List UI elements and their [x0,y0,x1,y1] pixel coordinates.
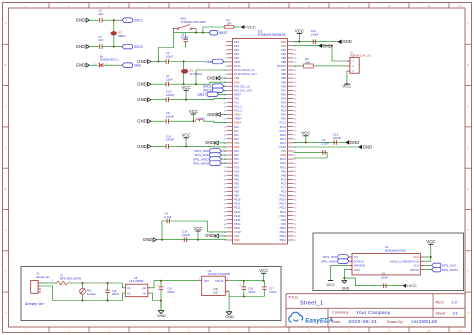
svg-text:12: 12 [224,86,226,88]
svg-text:PC4: PC4 [234,165,240,169]
svg-text:69: 69 [294,167,296,169]
svg-text:PD15: PD15 [280,194,287,198]
svg-text:14: 14 [224,94,226,96]
svg-text:PC15-OSC32_OUT: PC15-OSC32_OUT [234,72,257,76]
svg-text:PE9: PE9 [234,194,239,198]
svg-text:51: 51 [294,240,296,242]
svg-text:16: 16 [224,102,226,104]
svg-text:PE7: PE7 [234,185,239,189]
svg-text:PB8: PB8 [281,60,286,64]
svg-text:2.2uF: 2.2uF [322,141,330,145]
svg-text:OSC1: OSC1 [134,19,143,23]
svg-text:PB11: PB11 [234,226,241,230]
svg-text:VSS: VSS [281,44,286,48]
svg-text:10uH: 10uH [198,117,204,121]
svg-text:C: C [467,105,469,108]
svg-text:PD14: PD14 [280,198,287,202]
svg-text:PE5: PE5 [234,52,239,56]
svg-text:GND: GND [213,291,219,294]
svg-text:MF24 DF2.000TM: MF24 DF2.000TM [60,277,81,281]
svg-text:150nF: 150nF [112,292,120,296]
svg-text:GND: GND [143,237,153,242]
svg-text:10R: 10R [305,60,310,64]
svg-text:VCC: VCC [182,133,191,138]
svg-text:80: 80 [294,123,296,125]
svg-text:PA10: PA10 [280,165,287,169]
svg-text:PE10: PE10 [234,198,241,202]
svg-text:GND: GND [76,63,86,68]
svg-text:3: 3 [225,50,226,52]
svg-text:PB7: PB7 [281,68,286,72]
svg-text:38: 38 [224,191,226,193]
svg-text:54: 54 [294,228,296,230]
svg-text:PC14-OSC32_IN: PC14-OSC32_IN [234,68,254,72]
svg-text:PC13: PC13 [234,64,241,68]
svg-text:220uF: 220uF [248,290,256,294]
svg-text:PB10: PB10 [234,222,241,226]
svg-text:EasyEDA: EasyEDA [305,318,333,325]
svg-text:VSS: VSS [281,149,286,153]
svg-text:55: 55 [294,224,296,226]
svg-text:77: 77 [294,135,296,137]
svg-text:Sheet_1: Sheet_1 [300,301,324,307]
svg-text:91: 91 [294,78,296,80]
svg-text:PE6: PE6 [234,56,239,60]
svg-text:C15: C15 [112,289,117,293]
svg-text:VDD: VDD [234,80,240,84]
svg-text:2.2uF: 2.2uF [164,215,172,219]
svg-text:VCC: VCC [182,85,191,90]
svg-text:PB12: PB12 [280,238,287,242]
svg-text:OSC2: OSC2 [134,45,143,49]
svg-text:CR2032-BS-2-1: CR2032-BS-2-1 [100,58,120,62]
svg-text:220uF: 220uF [167,290,175,294]
svg-text:PC9: PC9 [281,177,287,181]
svg-text:PB2: PB2 [234,181,239,185]
svg-text:PA12: PA12 [280,157,287,161]
svg-text:100nF: 100nF [166,138,174,142]
svg-text:GND: GND [157,313,166,318]
svg-text:52: 52 [294,236,296,238]
svg-text:95: 95 [294,62,296,64]
svg-text:24: 24 [224,135,226,137]
svg-text:7: 7 [225,66,226,68]
svg-text:GND: GND [137,82,147,87]
svg-text:VCC: VCC [326,282,335,287]
svg-text:PB5: PB5 [281,76,286,80]
svg-text:SPI1_MISO: SPI1_MISO [321,259,338,263]
svg-text:49: 49 [224,236,226,238]
svg-text:81: 81 [294,119,296,121]
svg-text:Sheet:: Sheet: [435,312,446,316]
svg-text:53: 53 [294,232,296,234]
svg-text:VCC: VCC [295,28,304,33]
svg-text:SPI1_MOSI: SPI1_MOSI [442,268,458,272]
svg-text:PA5: PA5 [234,153,239,157]
svg-text:VCC: VCC [342,84,351,89]
svg-text:PC2_C: PC2_C [234,105,242,109]
svg-text:PC12: PC12 [280,121,287,125]
svg-text:VDD: VDD [281,153,287,157]
svg-text:23: 23 [224,131,226,133]
svg-text:GND: GND [137,119,147,124]
svg-text:66: 66 [294,179,296,181]
svg-text:H: H [467,311,469,314]
svg-text:8: 8 [225,70,226,72]
svg-text:59: 59 [294,208,296,210]
svg-text:20: 20 [224,119,226,121]
svg-text:76: 76 [294,139,296,141]
svg-text:GND: GND [342,39,352,44]
svg-text:19: 19 [224,115,226,117]
svg-text:PB6: PB6 [281,72,286,76]
svg-text:PC7: PC7 [281,185,287,189]
svg-text:1.0: 1.0 [451,300,457,305]
svg-text:DI(IO0): DI(IO0) [410,268,419,272]
svg-text:GND: GND [207,75,216,80]
svg-text:GND: GND [137,97,147,102]
svg-text:Штекер зел: Штекер зел [25,302,44,306]
svg-text:35: 35 [224,179,226,181]
svg-text:PA7: PA7 [234,161,239,165]
svg-text:PA14: PA14 [280,137,287,141]
svg-text:100nF: 100nF [333,136,341,140]
svg-text:VCC: VCC [259,268,268,273]
svg-text:VDDA: VDDA [234,121,241,125]
svg-text:PD4: PD4 [281,101,287,105]
svg-text:60: 60 [294,204,296,206]
svg-text:VDD: VDD [234,145,240,149]
svg-text:REV:: REV: [435,300,444,305]
svg-text:VOUT: VOUT [215,279,224,283]
svg-text:AC: AC [127,286,131,290]
svg-text:86: 86 [294,98,296,100]
svg-text:PA13: PA13 [280,141,287,145]
svg-text:100uF: 100uF [269,290,277,294]
svg-text:VCC: VCC [193,226,202,231]
svg-text:PD9: PD9 [281,218,287,222]
svg-text:PD3: PD3 [281,105,287,109]
svg-text:+VCC: +VCC [245,24,256,29]
svg-text:18: 18 [224,110,226,112]
svg-text:PA1: PA1 [234,129,239,133]
svg-text:PA2: PA2 [234,133,239,137]
svg-text:27: 27 [224,147,226,149]
svg-text:PE4: PE4 [234,48,239,52]
svg-text:+VCC: +VCC [407,284,417,288]
svg-text:79: 79 [294,127,296,129]
svg-text:PE14: PE14 [234,214,241,218]
svg-text:TITLE:: TITLE: [288,295,299,299]
svg-text:PC6: PC6 [281,190,287,194]
svg-text:89: 89 [294,86,296,88]
svg-text:PA9: PA9 [281,169,286,173]
svg-text:VCC: VCC [426,239,435,244]
svg-text:PD2: PD2 [281,109,287,113]
svg-text:87: 87 [294,94,296,96]
svg-text:85: 85 [294,102,296,104]
svg-text:2020-08-31: 2020-08-31 [348,319,377,325]
svg-text:TTS002E-2500-2500: TTS002E-2500-2500 [180,20,206,24]
svg-text:+: + [156,284,158,288]
svg-text:PE13: PE13 [234,210,241,214]
svg-text:25: 25 [224,139,226,141]
svg-text:+: + [239,284,241,288]
svg-text:PE8: PE8 [234,190,239,194]
svg-text:12pF: 12pF [166,77,173,81]
svg-text:Your Company: Your Company [356,310,391,315]
svg-text:PB15: PB15 [280,226,287,230]
svg-text:G: G [5,270,7,273]
svg-text:C17: C17 [269,286,274,290]
svg-text:100nF: 100nF [381,275,389,279]
svg-text:GND: GND [205,233,214,238]
svg-text:cer289126: cer289126 [411,319,437,325]
svg-text:HLK-20M05: HLK-20M05 [130,279,144,283]
svg-text:34: 34 [224,175,226,177]
svg-text:100nF: 100nF [181,36,189,40]
svg-text:2: 2 [225,46,226,48]
svg-text:62: 62 [294,195,296,197]
svg-text:GND: GND [76,18,86,23]
svg-text:65: 65 [294,183,296,185]
svg-text:PC3_C: PC3_C [234,109,242,113]
svg-text:75: 75 [294,143,296,145]
svg-text:PB4: PB4 [281,80,286,84]
svg-text:92: 92 [294,74,296,76]
svg-text:PA11: PA11 [280,161,287,165]
svg-text:GND: GND [205,140,214,145]
svg-text:41: 41 [224,204,226,206]
svg-text:PE0: PE0 [281,52,286,56]
svg-text:GND: GND [225,314,234,319]
svg-text:10pF: 10pF [166,55,173,59]
svg-text:VSS: VSS [234,76,239,80]
svg-text:C16: C16 [167,286,172,290]
svg-text:100nF: 100nF [166,114,174,118]
svg-text:BOOT0: BOOT0 [277,64,286,68]
svg-text:PA8: PA8 [281,173,286,177]
svg-text:GND: GND [323,43,332,48]
svg-text:PA4: PA4 [234,149,239,153]
svg-text:73: 73 [294,151,296,153]
svg-text:6pF: 6pF [98,12,103,16]
svg-text:VCAP: VCAP [279,145,286,149]
svg-text:6pF: 6pF [98,38,103,42]
svg-text:32: 32 [224,167,226,169]
svg-text:57: 57 [294,216,296,218]
svg-text:HDR-M-2.54_1x3: HDR-M-2.54_1x3 [350,54,371,58]
svg-text:NRST: NRST [234,92,241,96]
svg-text:5: 5 [225,58,226,60]
svg-text:VCC: VCC [189,109,198,114]
svg-text:68: 68 [294,171,296,173]
svg-text:VREF+: VREF+ [234,117,243,121]
svg-text:PE1: PE1 [281,48,286,52]
svg-text:PD1: PD1 [281,113,287,117]
svg-text:W25Q64JVSSIQ: W25Q64JVSSIQ [385,249,407,253]
svg-text:36: 36 [224,183,226,185]
svg-text:70: 70 [294,163,296,165]
svg-text:PD11: PD11 [280,210,287,214]
svg-text:C18: C18 [248,286,253,290]
svg-text:GND: GND [363,145,373,150]
svg-text:STM32H750VBT6: STM32H750VBT6 [258,33,286,37]
svg-text:39: 39 [224,195,226,197]
svg-text:PC10: PC10 [280,129,287,133]
svg-text:TC1262-3.3VDBTR: TC1262-3.3VDBTR [208,272,231,276]
svg-text:GND: GND [207,112,216,117]
svg-text:Date:: Date: [332,320,341,324]
svg-text:63: 63 [294,191,296,193]
svg-text:PD0: PD0 [281,117,287,121]
svg-text:PB9: PB9 [281,56,286,60]
svg-text:82: 82 [294,115,296,117]
svg-text:VDD: VDD [234,238,240,242]
svg-text:PH1-OSC_OUT: PH1-OSC_OUT [234,88,253,92]
svg-text:PB0: PB0 [234,173,239,177]
svg-text:72: 72 [294,155,296,157]
svg-text:PA0: PA0 [234,125,239,129]
svg-text:GND: GND [137,59,147,64]
svg-text:Vbat: Vbat [206,60,213,64]
svg-text:PC11: PC11 [280,125,287,129]
svg-text:43: 43 [224,212,226,214]
svg-text:96: 96 [294,58,296,60]
svg-text:45: 45 [224,220,226,222]
svg-text:Vbat: Vbat [134,64,141,68]
svg-text:17: 17 [224,106,226,108]
svg-text:97: 97 [294,54,296,56]
svg-text:PD5: PD5 [281,96,287,100]
svg-text:PD12: PD12 [280,206,287,210]
svg-text:PE12: PE12 [234,206,241,210]
svg-text:21: 21 [224,123,226,125]
svg-text:58: 58 [294,212,296,214]
svg-text:44: 44 [224,216,226,218]
svg-text:PD6: PD6 [281,92,287,96]
svg-text:93: 93 [294,70,296,72]
svg-text:GND: GND [76,44,86,49]
svg-text:Штекер зел: Штекер зел [36,275,50,279]
svg-text:40: 40 [224,200,226,202]
svg-text:VIN: VIN [204,279,209,283]
svg-text:PC0: PC0 [234,96,240,100]
svg-text:RV1: RV1 [87,288,93,292]
svg-text:PE15: PE15 [234,218,241,222]
svg-text:GND: GND [354,268,360,272]
svg-text:NRST: NRST [198,93,207,97]
svg-text:Company:: Company: [332,311,349,315]
svg-text:15: 15 [224,98,226,100]
svg-text:PA6: PA6 [234,157,239,161]
svg-text:SW1: SW1 [180,17,186,21]
svg-text:PB3: PB3 [281,84,286,88]
svg-text:42: 42 [224,208,226,210]
svg-text:22: 22 [224,127,226,129]
svg-text:46: 46 [224,224,226,226]
svg-text:100nF: 100nF [182,233,190,237]
svg-text:37: 37 [224,187,226,189]
svg-text:C9: C9 [382,272,386,276]
svg-text:PD10: PD10 [280,214,287,218]
svg-text:PD8: PD8 [281,222,287,226]
svg-text:PB1: PB1 [234,177,239,181]
svg-text:VSS: VSS [234,141,239,145]
svg-text:D: D [467,147,469,150]
svg-text:VBAT: VBAT [234,60,241,64]
svg-text:PC5: PC5 [234,169,240,173]
svg-text:PD7: PD7 [281,88,287,92]
svg-text:84: 84 [294,106,296,108]
svg-text:VCAP: VCAP [234,230,241,234]
svg-text:PD13: PD13 [280,202,287,206]
svg-text:SPI1_MOSI: SPI1_MOSI [193,161,209,165]
svg-text:C: C [5,105,7,108]
svg-text:1: 1 [225,42,226,44]
svg-text:100nF: 100nF [166,93,174,97]
svg-text:PB13: PB13 [280,234,287,238]
svg-text:71: 71 [294,159,296,161]
svg-text:100nF: 100nF [311,33,319,37]
svg-text:VCC: VCC [301,131,310,136]
svg-text:PA15: PA15 [280,133,287,137]
svg-text:64: 64 [294,187,296,189]
svg-text:10: 10 [224,78,226,80]
svg-text:56: 56 [294,220,296,222]
svg-text:Drawn By:: Drawn By: [387,320,404,324]
svg-text:98: 98 [294,50,296,52]
svg-text:D: D [5,147,7,150]
svg-text:83: 83 [294,110,296,112]
svg-text:67: 67 [294,175,296,177]
svg-text:GND: GND [342,287,350,291]
svg-text:PB14: PB14 [280,230,287,234]
svg-text:G: G [467,270,469,273]
svg-text:+Vo: +Vo [141,286,146,290]
svg-text:PC1: PC1 [234,101,240,105]
svg-text:10R: 10R [227,21,232,25]
svg-text:61: 61 [294,200,296,202]
svg-text:47: 47 [224,228,226,230]
svg-text:-Vo: -Vo [142,291,146,295]
svg-text:PE11: PE11 [234,202,241,206]
svg-text:NRST: NRST [219,31,228,35]
svg-text:VDD: VDD [281,40,287,44]
svg-text:4: 4 [225,54,226,56]
svg-text:88: 88 [294,90,296,92]
svg-text:6: 6 [225,62,226,64]
svg-text:78: 78 [294,131,296,133]
svg-text:H: H [5,311,7,314]
svg-text:Songlan: Songlan [87,292,97,296]
svg-text:GND: GND [137,144,147,149]
svg-text:PC8: PC8 [281,181,287,185]
svg-text:1/1: 1/1 [452,311,458,316]
svg-text:PH0-OSC_IN: PH0-OSC_IN [234,84,250,88]
svg-text:VSS: VSS [234,234,239,238]
svg-text:PA3: PA3 [234,137,239,141]
svg-text:50: 50 [224,240,226,242]
svg-text:9: 9 [225,74,226,76]
svg-text:GND: GND [350,140,360,145]
svg-text:PE3: PE3 [234,44,239,48]
svg-text:8MHz: 8MHz [118,34,126,38]
svg-text:PE2: PE2 [234,40,239,44]
svg-text:90: 90 [294,82,296,84]
svg-text:X1: X1 [190,69,194,73]
svg-text:33: 33 [224,171,226,173]
